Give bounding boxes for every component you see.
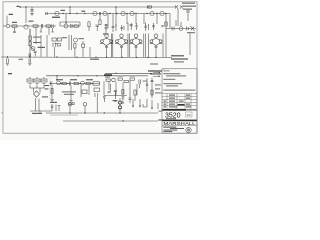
label bus end — [159, 119, 164, 120]
wire drop x166 — [165, 14, 167, 58]
wire mid rail — [1, 56, 172, 59]
wire drop x104 — [103, 81, 105, 95]
drawing number band — [162, 109, 186, 111]
label 2k2 — [82, 11, 86, 12]
lamp LP1 — [68, 103, 71, 106]
bridge rectifier BR1 — [34, 91, 40, 97]
label ps right2 — [45, 88, 49, 89]
table dark cell — [178, 104, 185, 106]
jack J1 — [6, 24, 9, 27]
ground g3 — [50, 100, 53, 102]
capacitor C26 — [139, 80, 140, 89]
junction dots top — [25, 6, 166, 14]
wire drop x127 — [126, 14, 128, 25]
ground g4 — [70, 101, 73, 103]
wire drop x148 — [148, 34, 150, 58]
resistor R5 stub — [51, 28, 53, 32]
resistor R6 — [74, 25, 78, 27]
wire drop x47 — [46, 35, 48, 57]
bias network — [176, 20, 181, 26]
revision table — [162, 94, 197, 109]
label pa in line2 — [150, 73, 161, 74]
label 1x — [19, 59, 24, 60]
wire drop x57b — [56, 76, 58, 81]
link marks — [99, 12, 101, 14]
resistor R1 — [12, 25, 17, 27]
resistor R40b — [106, 79, 110, 81]
capacitor C7b — [105, 25, 108, 26]
capacitor C6 — [96, 25, 100, 31]
wire second rail — [45, 13, 170, 15]
label D.C. supplies line2 — [183, 6, 196, 7]
feedback node — [151, 78, 153, 99]
label r16 — [33, 42, 41, 43]
wire drop x108 — [107, 14, 109, 29]
label bias — [38, 47, 46, 48]
svg-text:MARSHALL: MARSHALL — [163, 121, 196, 126]
label ps right1 — [45, 85, 50, 86]
label spk1 — [150, 64, 158, 65]
label pa head — [104, 74, 112, 75]
capacitor C12 — [53, 43, 57, 48]
wire mains line — [30, 110, 52, 112]
label under rail — [90, 59, 99, 60]
capacitor C29 — [122, 97, 125, 102]
wire upper link — [105, 72, 152, 74]
resistor R2 — [33, 25, 38, 27]
label TR7 — [61, 10, 66, 11]
transistor TR5 — [74, 38, 78, 42]
transistor TR3 — [31, 47, 35, 51]
transistor TR13 — [160, 11, 164, 15]
wire r23 drop — [82, 41, 84, 57]
capacitor C4 — [71, 24, 72, 28]
resistor R46 — [151, 90, 153, 95]
resistor R48 marks — [108, 84, 111, 93]
label ps right3 — [42, 96, 48, 97]
capacitor C3 — [52, 24, 53, 28]
wire ps drop2 — [39, 88, 41, 93]
wire drop pair x144 — [144, 34, 146, 58]
wire drop x130 — [129, 80, 131, 92]
capacitor C24 — [72, 103, 74, 105]
label pre2 — [70, 79, 77, 80]
output arrow 1 — [153, 72, 160, 73]
capacitor C20 — [51, 82, 52, 86]
transistor TR12 — [150, 11, 154, 15]
capacitor C30 — [30, 7, 34, 13]
capacitor C27 — [103, 97, 106, 102]
ground — [30, 13, 33, 15]
ground g2 — [6, 63, 9, 65]
capacitor C17 — [29, 57, 31, 63]
capacitor rail start — [46, 12, 47, 15]
resistor R34 — [82, 90, 87, 94]
transistor TR21 — [81, 81, 85, 85]
transformer T1 primary — [27, 79, 33, 82]
junction dots preamp — [56, 73, 116, 77]
junction dots bottom — [69, 112, 123, 121]
IC2 — [94, 88, 99, 92]
label d4 — [187, 32, 195, 33]
fuse FS2 — [186, 11, 190, 21]
label pa r40 — [105, 76, 110, 79]
label tr5 — [79, 38, 85, 39]
wire drop x113 — [112, 14, 114, 23]
resistor R43 — [130, 78, 134, 80]
capacitor C13 — [34, 52, 37, 57]
transistor TR22 — [112, 78, 116, 82]
wire ground bus — [46, 112, 158, 114]
wire drop x157 — [156, 14, 158, 25]
label pre3 — [86, 79, 93, 80]
wire drop x144 — [143, 14, 145, 25]
label cap stack — [113, 100, 118, 101]
resistor R40 — [99, 20, 101, 25]
wire tr2 top link — [60, 22, 80, 26]
wire drop x109 — [108, 81, 110, 90]
resistor R7 vertical — [88, 22, 90, 27]
switch SW1 — [51, 104, 61, 111]
label D.C. supplies line1 — [182, 3, 195, 4]
issue text — [166, 117, 176, 120]
wire rv drop — [53, 47, 55, 57]
wire ic2 drop — [96, 97, 98, 113]
wire drop pair x111 — [111, 34, 113, 58]
wire lower bus — [63, 120, 158, 122]
label pa c26 — [143, 80, 148, 83]
svg-text:1/3: 1/3 — [187, 113, 192, 117]
wire drop x100 — [99, 14, 101, 21]
resistor R31 — [74, 82, 78, 84]
link LK1 — [175, 6, 183, 9]
resistor R23 — [82, 44, 85, 47]
wire driver spine — [29, 29, 31, 57]
wire drop x116 — [115, 82, 117, 96]
wire chain — [49, 83, 100, 85]
capacitor C9 — [121, 25, 124, 31]
capacitor C7 — [105, 24, 108, 33]
wire lamp drop — [69, 106, 71, 113]
transistor TR8 — [93, 11, 97, 15]
wire right chain — [166, 28, 196, 30]
resistor R15 — [29, 36, 31, 40]
capacitor C34 — [146, 78, 148, 92]
customer band — [162, 120, 196, 122]
ground g7 — [122, 102, 125, 103]
resistor R32 — [86, 82, 90, 84]
capacitor C15 — [7, 57, 9, 63]
wire pa bottom — [104, 95, 127, 97]
resistor R3 — [46, 25, 50, 27]
output arrow 2 — [153, 76, 160, 77]
label rv1 — [62, 37, 67, 38]
resistor R4 stub — [13, 27, 15, 33]
label pa in line1 — [148, 70, 162, 71]
wire t1 drops — [30, 85, 44, 89]
capacitor C16 — [29, 54, 31, 58]
resistor R41 — [118, 78, 122, 80]
capacitor C33 — [129, 92, 132, 103]
label output line2 — [171, 58, 188, 59]
capacitor C2 — [41, 24, 42, 28]
capacitor C21 — [69, 82, 70, 86]
resistor R42 — [124, 80, 128, 82]
wire drop x52 — [51, 86, 53, 100]
wire bus2 — [50, 114, 78, 116]
wire drop x135 — [134, 95, 136, 101]
capacitor C10 — [135, 23, 137, 30]
resistor R50 — [165, 22, 167, 26]
wire corner — [143, 104, 147, 107]
capacitor C23 — [69, 103, 71, 105]
capacitor C40 — [172, 27, 174, 31]
sheet box — [186, 112, 193, 117]
resistor R12 — [128, 23, 133, 32]
diode D1 — [30, 46, 35, 51]
resistor R16 — [29, 42, 31, 46]
label TR1 — [29, 21, 34, 22]
wire from border — [3, 25, 6, 27]
capacitor C32 — [119, 106, 122, 109]
label output line1 — [171, 55, 184, 56]
coil marks — [29, 83, 46, 85]
wire drop x66 — [65, 14, 67, 25]
wire ps down2 — [38, 99, 40, 112]
label mains — [32, 113, 42, 114]
wire drop x136 — [135, 14, 137, 25]
title block outline — [162, 69, 197, 133]
label pa r43 — [130, 75, 136, 78]
resistor R44 vertical — [134, 90, 136, 95]
preset RV3 — [58, 44, 61, 47]
label bus end2 — [159, 111, 163, 112]
svg-text:Notes:-: Notes:- — [163, 70, 171, 73]
label output line3 — [174, 61, 184, 62]
output pair Q4 — [150, 34, 163, 58]
wire preamp rail — [46, 75, 148, 77]
table cell marks — [164, 95, 192, 108]
label TP — [8, 73, 12, 74]
transformer T1 sec1 — [34, 79, 40, 82]
wire +HT rail — [20, 6, 176, 8]
resistor R30 — [62, 82, 66, 84]
capacitor C11 — [152, 23, 154, 30]
label controls1 — [62, 91, 76, 92]
wire pair — [69, 35, 72, 50]
resistor R45 — [151, 81, 154, 82]
wire drop x36 — [35, 27, 37, 38]
transistor TR9 — [103, 11, 107, 15]
wire second stage — [60, 25, 80, 27]
capacitor C41 — [187, 27, 189, 31]
thermistor TH1 — [179, 27, 183, 31]
resistor R22 — [74, 44, 76, 49]
maker logo — [186, 127, 191, 132]
label fb1 — [155, 84, 161, 85]
wire tr5 drop — [74, 48, 76, 57]
wire heater drop — [84, 106, 86, 113]
capacitor C2a stub — [40, 28, 42, 32]
border frame — [3, 2, 197, 133]
wire drop x41 — [40, 35, 42, 57]
connector pins — [133, 99, 158, 109]
wire drop x49 — [48, 27, 50, 35]
capacitor C22 — [95, 93, 98, 97]
transformer T1 sec2 — [41, 79, 47, 82]
diode D2 — [144, 23, 148, 32]
transistor TR20 — [57, 81, 61, 85]
wire drop x116 — [115, 7, 117, 27]
wire drop x178 — [177, 9, 179, 27]
terminal P2 — [17, 6, 22, 8]
output pair Q1 — [100, 34, 113, 58]
wire drop pair x128 — [128, 34, 130, 58]
wire ps bus — [30, 87, 44, 89]
wire c31 stem — [119, 98, 121, 113]
address lines — [163, 127, 184, 132]
label c7 — [103, 33, 109, 34]
junction dots tr2 — [60, 21, 92, 84]
wire drop x71 — [70, 86, 72, 101]
wire drop x36 ext — [35, 38, 37, 44]
resistor R47 vertical — [122, 90, 124, 95]
valve heater V1 — [83, 103, 86, 106]
label input — [12, 22, 17, 23]
label pre1 — [56, 79, 63, 80]
output pair Q3 — [130, 34, 143, 58]
wire drop x89 — [88, 85, 90, 95]
transistor TR1 — [24, 25, 28, 29]
capacitor C8 pair — [112, 22, 116, 32]
label fb2 — [155, 88, 160, 89]
wire drop x26 — [25, 7, 27, 23]
diode D4 — [191, 26, 195, 31]
transistor TR2 — [64, 24, 68, 28]
label controls2 — [64, 94, 74, 95]
transistor TR10 — [121, 11, 125, 15]
tick — [39, 111, 41, 113]
ground g6 — [114, 100, 117, 101]
wire drop x30 — [29, 29, 31, 37]
label fb3 — [155, 92, 162, 93]
ground g5 — [28, 63, 31, 65]
label 5+6A — [52, 17, 60, 18]
label r15 — [33, 37, 41, 38]
wire input line — [10, 25, 56, 27]
output pair Q2 — [115, 34, 128, 58]
wire drop x170 — [169, 14, 171, 29]
chassis dashed boundary — [49, 78, 51, 100]
preset RV1 — [52, 38, 56, 41]
wire right drop — [189, 33, 191, 55]
label D.C. supplies line3 — [183, 9, 192, 10]
label pa r41 — [118, 75, 124, 78]
wire x90 drop — [89, 47, 91, 57]
fuse FS3 — [148, 6, 152, 8]
transformer stubs — [30, 77, 44, 79]
label sw — [50, 102, 57, 103]
junction dots rail — [7, 56, 157, 58]
note line 1 — [163, 73, 195, 90]
transformer inner marks — [28, 80, 46, 82]
transistor TR11 — [130, 11, 134, 15]
wire ps down1 — [35, 98, 37, 111]
wire link x70 — [69, 7, 71, 14]
wire drop x123 — [122, 83, 124, 96]
wire drop x137 — [136, 84, 138, 96]
wire r7 — [88, 27, 90, 31]
label +C — [9, 14, 13, 15]
preset RV2 — [57, 38, 61, 41]
transistor TR7 — [55, 11, 59, 15]
wire drop x81 — [80, 85, 82, 97]
wire drop x163 — [162, 34, 164, 58]
wire ps drop1 — [33, 88, 35, 93]
capacitor C14 — [161, 26, 163, 27]
capacitor C28 — [114, 91, 117, 100]
capacitor C31 — [119, 101, 122, 104]
resistor R33 vertical — [51, 89, 53, 94]
pin arrows — [132, 106, 152, 110]
wire input stub — [6, 16, 8, 25]
IC1 — [93, 82, 99, 85]
